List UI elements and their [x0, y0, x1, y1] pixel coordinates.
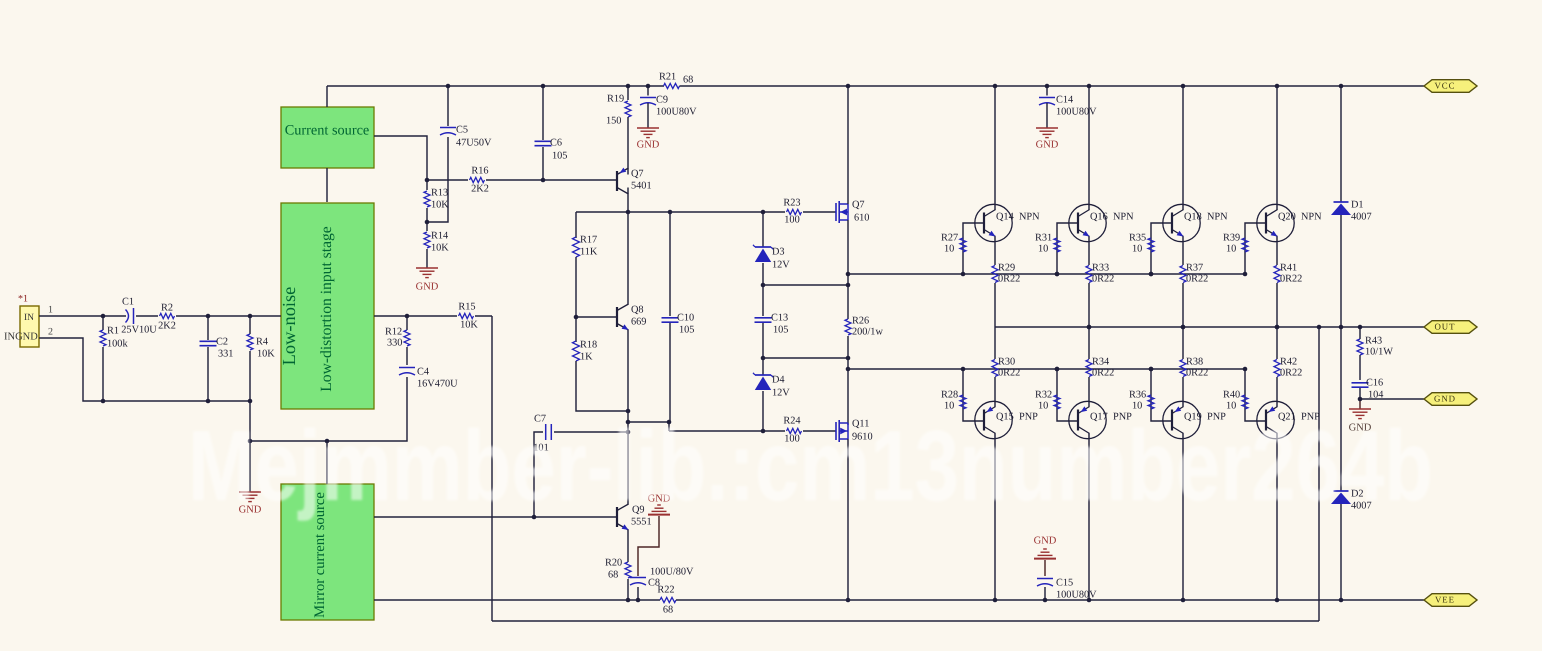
- wire Q15 collector: [994, 434, 996, 601]
- svg-text:R30: R30: [998, 356, 1015, 367]
- svg-text:R29: R29: [998, 262, 1015, 273]
- svg-text:C14: C14: [1056, 94, 1073, 105]
- svg-text:IN: IN: [24, 313, 34, 323]
- svg-text:R32: R32: [1035, 389, 1052, 400]
- svg-text:R21: R21: [659, 71, 676, 82]
- svg-text:VEE: VEE: [1435, 595, 1455, 605]
- transistor Q19 PNP: [1163, 401, 1226, 438]
- transistor Q15 PNP: [975, 401, 1038, 438]
- svg-text:R42: R42: [1280, 356, 1297, 367]
- svg-text:C15: C15: [1056, 577, 1073, 588]
- junction dot C7: [532, 515, 537, 520]
- wire VCC rail right: [680, 85, 1425, 87]
- wire C10 bottom link: [628, 422, 669, 431]
- watermark: [188, 410, 1433, 522]
- wire R16 left: [427, 179, 468, 181]
- svg-text:GND: GND: [637, 139, 660, 150]
- svg-text:GND: GND: [416, 281, 439, 292]
- ground (R14): [416, 268, 439, 292]
- resistor R12: [385, 316, 410, 365]
- svg-text:Low-noise: Low-noise: [279, 287, 299, 366]
- svg-text:R43: R43: [1365, 335, 1382, 346]
- wire Q7mos drain: [847, 86, 849, 204]
- wire Q21 collector: [1276, 434, 1278, 601]
- svg-text:R2: R2: [161, 302, 173, 313]
- svg-text:R15: R15: [458, 301, 475, 312]
- svg-text:OUT: OUT: [1434, 322, 1455, 332]
- transistor Q20 NPN: [1257, 204, 1322, 241]
- capacitor C15: [1037, 577, 1097, 600]
- junction dot R12: [248, 314, 410, 444]
- junction dots Q21: [1243, 367, 1280, 603]
- wire link D3 node: [763, 284, 848, 286]
- wire feedback bottom: [492, 620, 1319, 622]
- svg-text:R23: R23: [783, 197, 800, 208]
- resistor R23: [783, 197, 801, 225]
- junction dots D3 D4 col: [761, 210, 766, 434]
- junction dots VAS: [626, 210, 631, 435]
- svg-text:NPN: NPN: [1301, 211, 1322, 222]
- svg-text:NPN: NPN: [1207, 211, 1228, 222]
- svg-text:Q18: Q18: [1184, 211, 1202, 222]
- capacitor C14: [1039, 86, 1097, 128]
- ground (C14): [1036, 128, 1059, 150]
- junction dots Q19: [1149, 367, 1186, 603]
- svg-text:68: 68: [663, 604, 673, 615]
- wire mirror stem: [326, 441, 328, 484]
- wire Q17 collector: [1088, 434, 1090, 601]
- svg-text:10: 10: [1132, 243, 1142, 254]
- wire R24 line: [669, 430, 785, 432]
- wire R15 to feedback corner: [475, 315, 492, 317]
- resistor R27 (10): [941, 223, 984, 274]
- wire OUT rail: [995, 326, 1424, 328]
- ground (C16): [1349, 399, 1372, 433]
- resistor R38 (0R22): [1180, 327, 1208, 407]
- svg-text:0R22: 0R22: [998, 367, 1020, 378]
- svg-text:R4: R4: [256, 336, 268, 347]
- resistor R22: [657, 584, 676, 615]
- capacitor C10: [662, 212, 695, 422]
- svg-text:1K: 1K: [580, 351, 593, 362]
- junction dot C14: [1045, 84, 1050, 89]
- transistor Q18 NPN: [1163, 204, 1228, 241]
- wire Q7 emitter: [627, 167, 629, 175]
- svg-text:25V10U: 25V10U: [121, 324, 157, 335]
- svg-text:200/1w: 200/1w: [852, 326, 883, 337]
- resistor R31 (10): [1035, 223, 1078, 274]
- wire link D4 node: [763, 357, 848, 359]
- junction dots Q17: [1055, 367, 1092, 603]
- resistor R15: [458, 301, 478, 330]
- svg-text:10/1W: 10/1W: [1365, 346, 1393, 357]
- wire Q7mos source down: [847, 220, 849, 319]
- transistor Q21 PNP: [1257, 401, 1320, 438]
- svg-text:150: 150: [606, 115, 621, 126]
- resistor R43: [1357, 327, 1393, 380]
- resistor R21 (in VCC rail): [659, 71, 693, 88]
- junction dots Q15: [961, 367, 998, 603]
- resistor R32 (10): [1035, 369, 1078, 421]
- svg-text:R17: R17: [580, 234, 597, 245]
- svg-text:0R22: 0R22: [1280, 367, 1302, 378]
- resistor R36 (10): [1129, 369, 1172, 421]
- svg-text:105: 105: [773, 324, 788, 335]
- wire VEE rail right: [676, 599, 1424, 601]
- wire C1 to R2: [136, 315, 158, 317]
- capacitor C2: [200, 316, 234, 401]
- junction dots drive rails: [1055, 272, 1280, 372]
- junction dots input: [101, 314, 253, 404]
- svg-text:R35: R35: [1129, 232, 1146, 243]
- transistor Q8 (669): [617, 304, 646, 330]
- resistor R42 (0R22): [1274, 327, 1302, 407]
- wire VEE rail left: [374, 599, 660, 601]
- wire C16 to GND flag: [1360, 398, 1424, 400]
- svg-text:10: 10: [1226, 243, 1236, 254]
- svg-text:100U80V: 100U80V: [1056, 589, 1097, 600]
- svg-text:0R22: 0R22: [998, 273, 1020, 284]
- svg-text:INGND: INGND: [4, 331, 38, 342]
- wire current source stem top: [326, 86, 328, 107]
- svg-text:100U/80V: 100U/80V: [650, 566, 694, 577]
- wire VCC rail left: [327, 85, 664, 87]
- svg-text:C9: C9: [656, 94, 668, 105]
- junction dots C10: [667, 210, 673, 425]
- power flag VEE: [1424, 594, 1477, 607]
- svg-text:GND: GND: [1034, 535, 1057, 546]
- resistor R16: [470, 165, 489, 194]
- svg-text:11K: 11K: [580, 246, 598, 257]
- svg-text:610: 610: [854, 212, 869, 223]
- ground (C15): [1034, 535, 1057, 576]
- resistor R17: [573, 212, 598, 317]
- svg-text:R14: R14: [431, 230, 448, 241]
- junction dot C15: [1043, 598, 1048, 603]
- svg-text:C16: C16: [1366, 377, 1383, 388]
- svg-text:Q20: Q20: [1278, 211, 1296, 222]
- wire feedback up to OUT: [1318, 327, 1320, 621]
- wire R23 to Q7 gate: [803, 211, 836, 213]
- wire feedback down: [491, 316, 493, 621]
- svg-text:331: 331: [218, 348, 233, 359]
- svg-text:*1: *1: [18, 293, 28, 304]
- svg-text:10: 10: [944, 243, 954, 254]
- wire current source out: [374, 136, 427, 180]
- svg-text:100U80V: 100U80V: [1056, 106, 1097, 117]
- svg-text:R38: R38: [1186, 356, 1203, 367]
- junction dots Q18: [1149, 84, 1186, 330]
- svg-text:Mejmmber-lib.:cm13number264b: Mejmmber-lib.:cm13number264b: [188, 410, 1433, 522]
- svg-text:10K: 10K: [431, 199, 449, 210]
- junction dots R19 C9: [626, 84, 651, 89]
- svg-text:C6: C6: [550, 137, 562, 148]
- output flag OUT: [1424, 321, 1477, 334]
- svg-text:C2: C2: [216, 336, 228, 347]
- svg-text:100k: 100k: [107, 338, 128, 349]
- wire NPN base drive rail: [848, 273, 1245, 275]
- svg-text:0R22: 0R22: [1186, 367, 1208, 378]
- svg-text:4007: 4007: [1351, 211, 1372, 222]
- capacitor C4: [250, 366, 458, 441]
- svg-text:R18: R18: [580, 339, 597, 350]
- svg-text:Current source: Current source: [285, 122, 370, 138]
- svg-text:10K: 10K: [257, 348, 275, 359]
- zener D3 (12V): [753, 212, 790, 285]
- svg-text:2K2: 2K2: [471, 183, 489, 194]
- ground (C9): [637, 128, 660, 150]
- svg-text:10K: 10K: [460, 319, 478, 330]
- resistor R34 (0R22): [1086, 327, 1114, 407]
- power flag VCC: [1424, 80, 1477, 93]
- ground flag GND: [1424, 393, 1477, 406]
- wire current source stem bottom: [326, 168, 328, 202]
- svg-text:100: 100: [784, 214, 799, 225]
- wire Q9 collector: [627, 432, 629, 505]
- capacitor C6: [535, 86, 568, 180]
- svg-text:2: 2: [48, 326, 53, 337]
- svg-text:R36: R36: [1129, 389, 1146, 400]
- wire Q8 collector up: [627, 212, 629, 305]
- svg-text:Q7: Q7: [631, 168, 644, 179]
- wire Q9 emitter: [627, 530, 629, 562]
- junction dots driver col: [846, 84, 851, 603]
- resistor R20: [605, 557, 631, 600]
- svg-text:R26: R26: [852, 315, 869, 326]
- svg-text:R22: R22: [657, 584, 674, 595]
- junction dot Q8 base: [574, 315, 579, 320]
- svg-text:0R22: 0R22: [1280, 273, 1302, 284]
- svg-text:100U80V: 100U80V: [656, 106, 697, 117]
- junction dots Q20: [1243, 84, 1280, 330]
- resistor R1: [100, 316, 128, 401]
- diode D2 (4007): [1331, 327, 1372, 600]
- svg-text:NPN: NPN: [1113, 211, 1134, 222]
- svg-text:47U50V: 47U50V: [456, 137, 492, 148]
- capacitor C5: [427, 86, 492, 222]
- capacitor C8: [630, 566, 694, 600]
- svg-text:R1: R1: [107, 325, 119, 336]
- resistor R30 (0R22): [992, 327, 1020, 407]
- svg-text:VCC: VCC: [1434, 81, 1455, 91]
- svg-text:105: 105: [679, 324, 694, 335]
- svg-text:105: 105: [552, 150, 567, 161]
- resistor R4: [247, 316, 275, 401]
- capacitor C9: [640, 86, 697, 128]
- svg-text:R39: R39: [1223, 232, 1240, 243]
- mosfet Q7 (610): [836, 199, 869, 223]
- wire Q9 base line: [374, 516, 617, 518]
- wire Q8 emitter down: [627, 330, 629, 432]
- wire pin2 down to ground bus: [39, 338, 250, 401]
- transistor Q14 NPN: [975, 204, 1040, 241]
- junction dots D1 D2: [1317, 84, 1344, 603]
- wire Q7 collector: [627, 188, 629, 213]
- svg-text:16V470U: 16V470U: [417, 378, 458, 389]
- svg-text:GND: GND: [1036, 139, 1059, 150]
- svg-text:R19: R19: [607, 93, 624, 104]
- svg-text:C4: C4: [417, 366, 429, 377]
- wire VAS node line: [576, 211, 628, 213]
- svg-text:C10: C10: [677, 312, 694, 323]
- svg-text:R13: R13: [431, 187, 448, 198]
- ground (Q9): [638, 493, 671, 576]
- resistor R37 (0R22): [1180, 237, 1208, 328]
- wire Q16 collector: [1088, 86, 1090, 210]
- junction dots Q16: [1055, 84, 1092, 330]
- resistor R2: [158, 302, 176, 331]
- resistor R41 (0R22): [1274, 237, 1302, 328]
- svg-text:0R22: 0R22: [1092, 367, 1114, 378]
- transistor Q7 (5401): [617, 168, 652, 194]
- resistor R33 (0R22): [1086, 237, 1114, 328]
- svg-text:Q8: Q8: [631, 304, 644, 315]
- junction dots C5 C6 R13: [425, 84, 546, 225]
- block: Mirror current source: [281, 484, 374, 620]
- diode D1 (4007): [1331, 86, 1372, 327]
- wire Q14 collector: [994, 86, 996, 210]
- svg-text:Q16: Q16: [1090, 211, 1108, 222]
- svg-text:R12: R12: [385, 326, 402, 337]
- resistor R40 (10): [1223, 369, 1266, 421]
- transistor Q16 NPN: [1069, 204, 1134, 241]
- zener D4 (12V): [753, 358, 790, 431]
- resistor R26: [845, 315, 883, 337]
- resistor R18: [573, 317, 629, 411]
- svg-text:330: 330: [387, 337, 402, 348]
- block: Low-noise Low-distortion input stage: [279, 203, 374, 409]
- svg-text:D4: D4: [772, 374, 785, 385]
- svg-text:R37: R37: [1186, 262, 1203, 273]
- wire R26 to Q11: [847, 336, 849, 425]
- resistor R13: [424, 180, 449, 222]
- svg-text:R28: R28: [941, 389, 958, 400]
- svg-text:R31: R31: [1035, 232, 1052, 243]
- block: Current source: [281, 107, 374, 168]
- resistor R24: [783, 415, 801, 444]
- resistor R29 (0R22): [992, 237, 1020, 328]
- svg-text:D1: D1: [1351, 199, 1364, 210]
- wire R4 bottom to GND: [249, 401, 251, 492]
- wire Q8 base: [576, 316, 617, 318]
- svg-text:R16: R16: [471, 165, 488, 176]
- wire R2 to input stage: [176, 315, 281, 317]
- svg-text:Q14: Q14: [996, 211, 1014, 222]
- wire input stage output: [374, 315, 457, 317]
- connector J1 IN/INGND: [4, 293, 39, 347]
- svg-text:10: 10: [1038, 243, 1048, 254]
- wire R24 to Q11 gate: [803, 430, 836, 432]
- junction dots Q14: [961, 84, 998, 277]
- resistor R39 (10): [1223, 223, 1266, 274]
- resistor R35 (10): [1129, 223, 1172, 274]
- pin 1 label: [48, 304, 53, 315]
- transistor Q17 PNP: [1069, 401, 1132, 438]
- wire pin1 to C1: [39, 315, 126, 317]
- svg-text:5401: 5401: [631, 180, 652, 191]
- pin 2 label: [48, 326, 53, 337]
- wire Q19 collector: [1182, 434, 1184, 601]
- capacitor C16: [1352, 377, 1384, 400]
- svg-text:12V: 12V: [772, 387, 790, 398]
- svg-text:R27: R27: [941, 232, 958, 243]
- wire Q18 collector: [1182, 86, 1184, 210]
- resistor R28 (10): [941, 369, 984, 421]
- svg-text:D3: D3: [772, 246, 785, 257]
- transistor Q9 (5551): [617, 504, 652, 530]
- svg-text:C1: C1: [122, 296, 134, 307]
- svg-text:12V: 12V: [772, 259, 790, 270]
- svg-text:0R22: 0R22: [1186, 273, 1208, 284]
- svg-text:Q7: Q7: [852, 199, 865, 210]
- svg-text:669: 669: [631, 316, 646, 327]
- wire Q20 collector: [1276, 86, 1278, 210]
- mosfet Q11 (9610): [836, 418, 873, 442]
- svg-text:R33: R33: [1092, 262, 1109, 273]
- svg-text:R20: R20: [605, 557, 622, 568]
- wire Q11 drain down: [847, 439, 849, 600]
- svg-text:C13: C13: [771, 312, 788, 323]
- svg-text:0R22: 0R22: [1092, 273, 1114, 284]
- resistor R14: [424, 222, 449, 268]
- svg-text:R34: R34: [1092, 356, 1109, 367]
- svg-text:68: 68: [608, 569, 618, 580]
- svg-text:R40: R40: [1223, 389, 1240, 400]
- capacitor C1: [121, 296, 157, 335]
- wire R23 line: [628, 211, 785, 213]
- wire PNP base drive rail: [848, 368, 1245, 370]
- wire R16 right to Q7 base: [486, 179, 617, 181]
- svg-text:10K: 10K: [431, 242, 449, 253]
- capacitor C7: [533, 413, 628, 517]
- junction dots R43: [1358, 325, 1363, 402]
- svg-text:2K2: 2K2: [158, 320, 176, 331]
- ground (input): [239, 492, 262, 515]
- svg-text:1: 1: [48, 304, 53, 315]
- capacitor C13: [755, 285, 789, 358]
- svg-text:GND: GND: [1434, 394, 1456, 404]
- svg-text:Low-distortion input stage: Low-distortion input stage: [318, 226, 335, 392]
- junction dots Q9 rail: [626, 598, 641, 603]
- resistor R19: [606, 86, 631, 167]
- svg-text:68: 68: [683, 74, 693, 85]
- svg-text:C5: C5: [456, 124, 468, 135]
- svg-text:NPN: NPN: [1019, 211, 1040, 222]
- svg-text:R41: R41: [1280, 262, 1297, 273]
